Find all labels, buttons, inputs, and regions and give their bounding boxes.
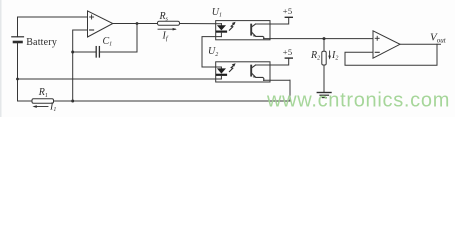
op-amp A2 triangle	[373, 31, 400, 58]
svg-text:+5: +5	[283, 6, 293, 16]
wire U2 emitter to bottom line	[264, 79, 291, 81]
wire op-amp2 feedback loop	[345, 44, 437, 65]
current arrow If	[158, 28, 177, 31]
op-amp A1 minus input marker	[90, 29, 94, 31]
wire battery+ top	[18, 17, 88, 37]
phototransistor Q1 of U1	[251, 24, 264, 39]
wire bottom line through R1	[18, 100, 33, 102]
svg-text:+5: +5	[283, 47, 293, 57]
node battery-minus junction	[16, 78, 19, 81]
+5 supply bar U2	[285, 57, 292, 59]
capacitor C1	[96, 47, 99, 57]
node output junction	[136, 22, 139, 25]
wire battery- down	[17, 43, 19, 101]
battery B1	[12, 37, 24, 42]
LED D1 of U1	[217, 24, 226, 37]
wire cap left lead	[73, 51, 96, 53]
op-amp A2 plus input marker	[375, 36, 379, 40]
op-amp A1 triangle	[88, 11, 113, 37]
current arrow I2	[328, 51, 331, 60]
wire cap right lead up to output	[99, 24, 137, 53]
node feedback-bottom junction	[71, 100, 74, 103]
wire U1 emitter line to op-amp2	[264, 38, 374, 40]
wire R1 to U2 emitter	[54, 80, 291, 101]
wire R2 top lead	[323, 39, 325, 52]
wire U1 cathode to U2 anode	[202, 37, 221, 67]
phototransistor Q2 of U2	[251, 65, 264, 80]
svg-text:Battery: Battery	[26, 37, 57, 48]
emission arrow U1	[229, 22, 235, 30]
page left edge shading	[0, 0, 2, 117]
resistor Rs	[158, 21, 180, 25]
wire U1 collector to +5	[255, 18, 288, 24]
wire op-amp output to Rs	[113, 23, 158, 25]
op-amp A2 minus input marker	[375, 51, 379, 53]
resistor R1	[32, 99, 54, 103]
ground	[317, 93, 331, 98]
LED D2 of U2	[217, 67, 226, 79]
wire R2 to ground	[323, 65, 325, 92]
svg-text:www.cntronics.com: www.cntronics.com	[266, 90, 450, 112]
optocoupler U1 box	[216, 21, 270, 40]
+5 supply bar U1	[285, 16, 292, 18]
wire battery node to U2 cathode	[18, 78, 222, 80]
wire inverting input to bottom line	[73, 30, 88, 101]
resistor R2	[322, 51, 326, 65]
op-amp A1 plus input marker	[90, 15, 94, 19]
emission arrow U2	[229, 63, 235, 71]
wire op-amp2 output	[400, 43, 441, 45]
wire Rs to U1 anode	[180, 23, 222, 25]
node capacitor tap	[71, 51, 74, 54]
node R2 top junction	[323, 37, 326, 40]
wire U2 collector to +5	[255, 58, 288, 65]
optocoupler U2 box	[216, 62, 270, 82]
current arrow I1	[32, 105, 48, 108]
